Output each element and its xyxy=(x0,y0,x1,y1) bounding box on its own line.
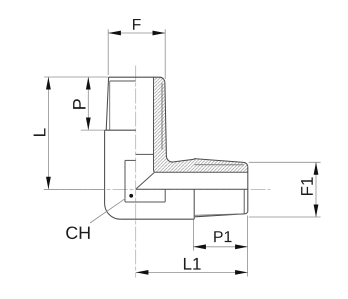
dimension F line xyxy=(108,32,165,34)
CH leader dot xyxy=(129,194,133,198)
horizontal stud top crest xyxy=(194,159,248,167)
horizontal stud top thread root line xyxy=(195,164,244,166)
dimension F label xyxy=(133,19,141,30)
dimension F extension lines xyxy=(107,29,109,75)
bore wall vertical (section) xyxy=(154,78,248,173)
block bottom edge xyxy=(120,218,194,220)
counterbore line in vertical bore xyxy=(136,153,154,155)
neck line to thread start xyxy=(173,159,195,162)
dimension P bottom extension line xyxy=(81,129,105,131)
stud end face xyxy=(247,167,249,212)
dimension F1 extension lines xyxy=(249,161,321,163)
hex chamfer boundary top xyxy=(125,159,136,161)
dimension F1 line xyxy=(315,162,317,217)
dimension F1 label xyxy=(301,177,313,195)
dimension P1 label xyxy=(214,231,231,242)
hex chamfer boundary left xyxy=(124,160,126,202)
end face bottom corner xyxy=(244,212,248,214)
horizontal stud tip chamfer line xyxy=(243,189,245,214)
vertical stud chamfer line xyxy=(110,80,136,82)
bore corner diagonal xyxy=(136,172,155,189)
vertical stud right outer edge xyxy=(165,83,167,156)
block left edge xyxy=(104,130,106,203)
vertical centerline xyxy=(135,66,137,278)
dimension P1 arrows xyxy=(193,244,206,249)
block top face line (thread end) xyxy=(105,129,136,131)
vertical stud left taper edge xyxy=(106,77,108,130)
bore edge line at axis xyxy=(136,188,248,190)
dimension L arrows xyxy=(46,77,51,90)
top face of vertical stud xyxy=(109,77,165,83)
block rounded corner xyxy=(105,204,121,220)
dimension F arrows xyxy=(108,31,121,36)
top extension line (tip of vertical stud) xyxy=(44,76,108,78)
block right face xyxy=(193,189,195,219)
horizontal stud bottom crest xyxy=(195,214,245,217)
CH leader line xyxy=(90,198,126,223)
horizontal stud bottom thread root line xyxy=(195,214,241,215)
dimension P label xyxy=(73,99,85,109)
dimension L label xyxy=(34,128,46,136)
dimension P1 line xyxy=(193,246,247,248)
vertical stud right thread root line xyxy=(161,83,163,150)
hex chamfer boundary bottom xyxy=(125,201,165,203)
dimension F1 arrows xyxy=(314,162,319,175)
dimension L bottom extension line xyxy=(44,188,104,190)
dimension P arrows xyxy=(86,77,91,90)
dimension L1 line xyxy=(136,271,248,273)
dimension L1 label xyxy=(184,258,201,270)
dimension P line xyxy=(87,77,89,130)
inner corner fillet xyxy=(166,156,172,162)
horizontal centerline xyxy=(44,188,271,190)
hatched section wall (L-shaped band) xyxy=(154,78,248,173)
dimension L1 arrows xyxy=(136,270,149,275)
hex chamfer boundary right xyxy=(164,189,166,202)
dimension L line xyxy=(47,77,49,189)
CH label xyxy=(66,226,89,239)
vertical stud left thread root line xyxy=(109,81,111,130)
dimension P1 extension lines xyxy=(192,220,194,251)
